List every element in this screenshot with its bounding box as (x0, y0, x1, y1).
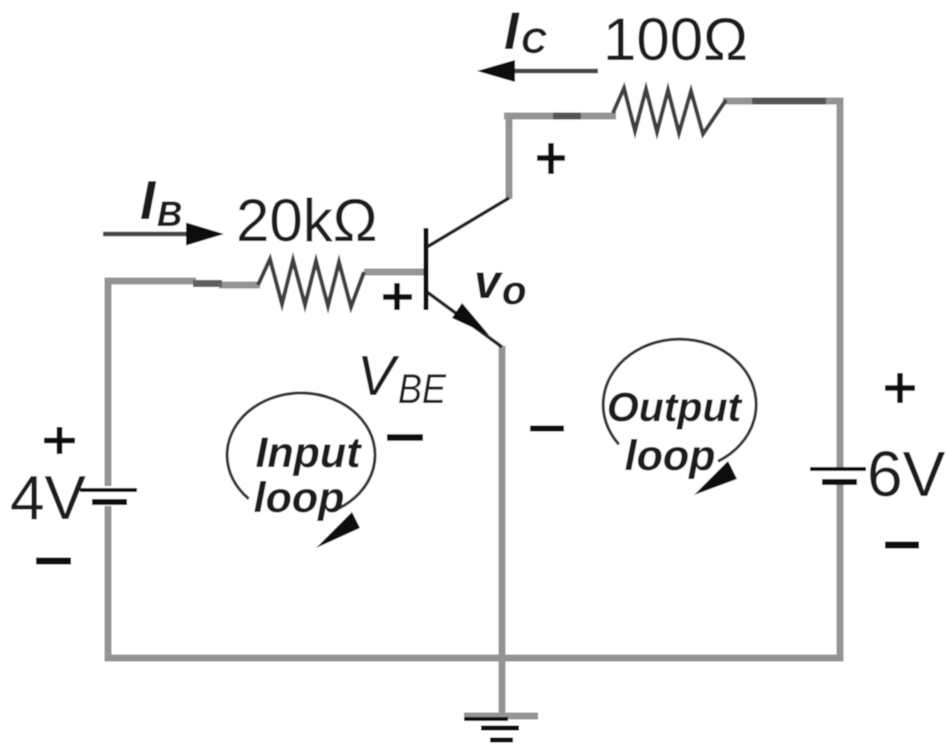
svg-text:Output: Output (607, 384, 744, 430)
svg-text:o: o (502, 269, 526, 313)
svg-text:I: I (504, 2, 520, 61)
svg-text:loop: loop (625, 432, 716, 480)
svg-text:loop: loop (254, 474, 345, 522)
svg-text:100Ω: 100Ω (603, 6, 748, 73)
svg-text:I: I (140, 169, 157, 231)
svg-text:4V: 4V (10, 464, 86, 533)
svg-text:v: v (474, 256, 503, 309)
svg-text:20kΩ: 20kΩ (236, 187, 378, 254)
svg-text:C: C (521, 22, 547, 61)
svg-text:BE: BE (398, 365, 447, 412)
svg-text:V: V (357, 344, 400, 408)
svg-text:6V: 6V (867, 438, 946, 510)
svg-text:B: B (157, 195, 182, 234)
svg-text:Input: Input (255, 429, 362, 477)
